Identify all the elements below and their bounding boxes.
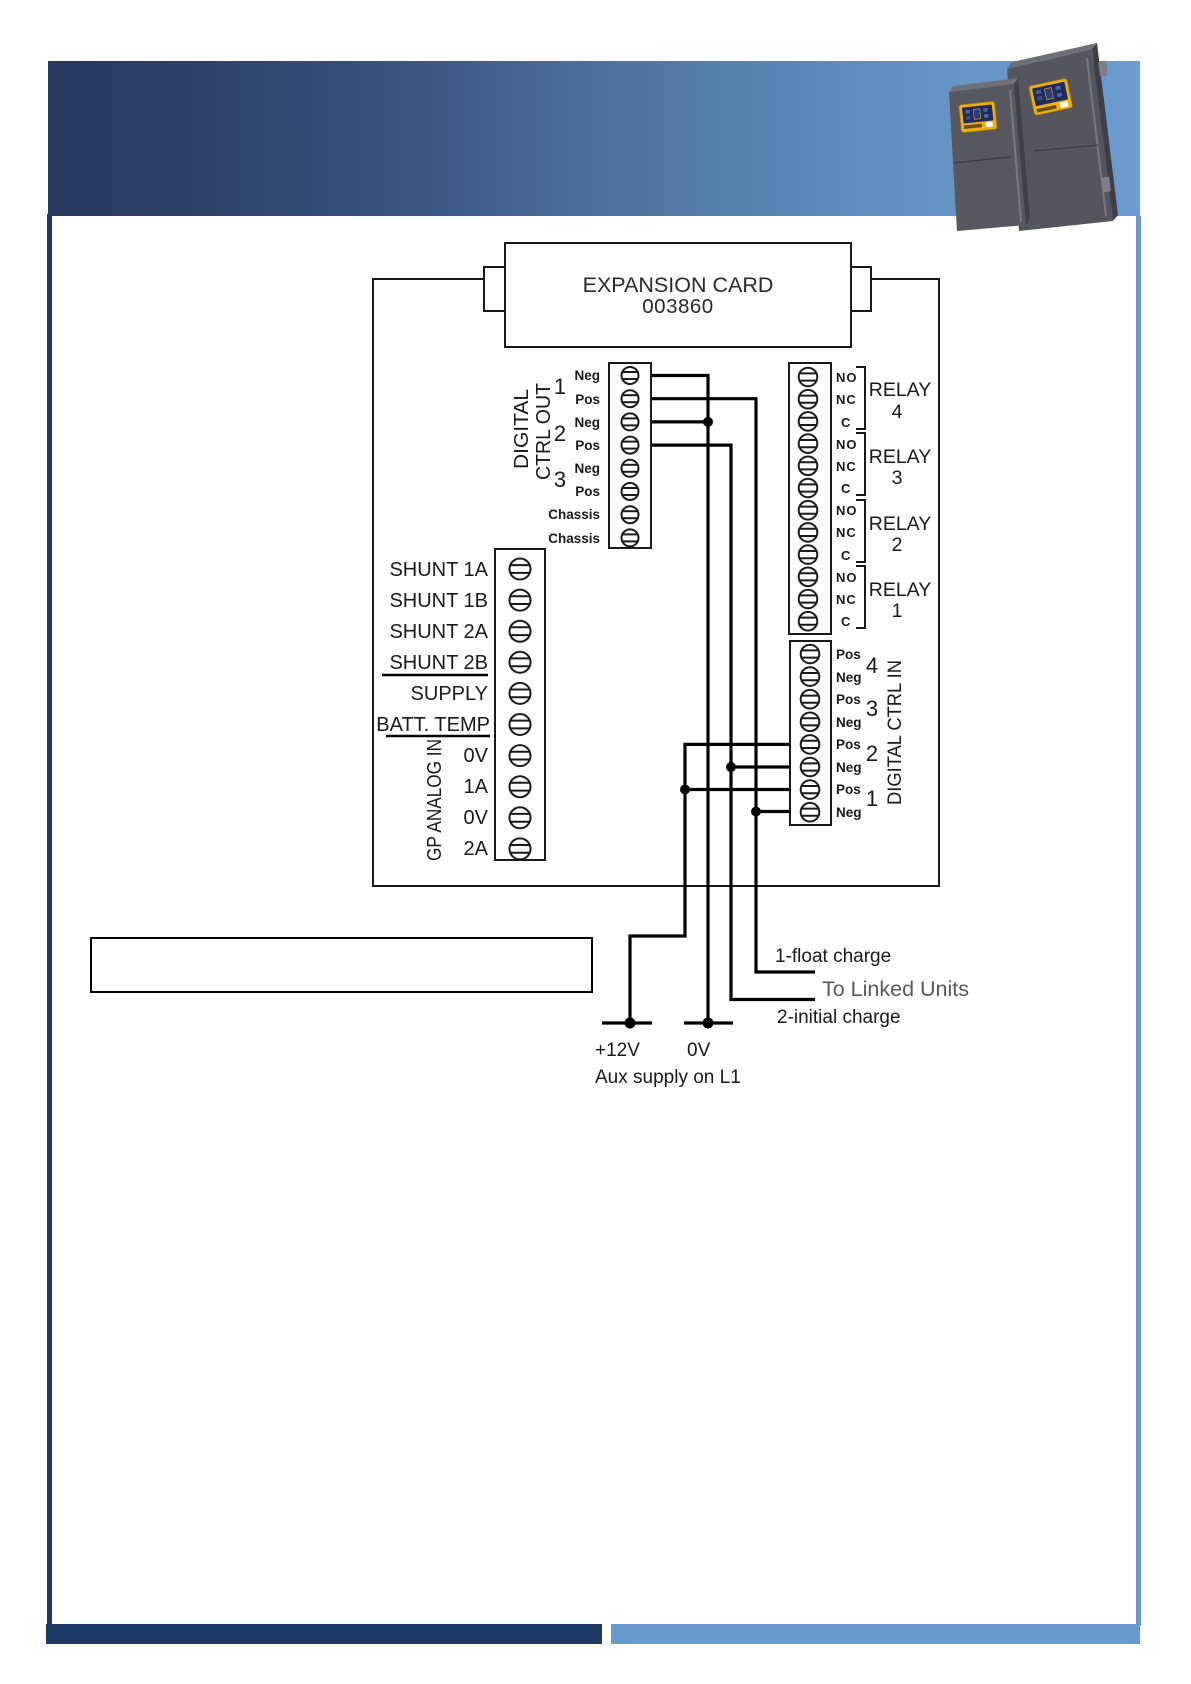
svg-text:2: 2	[866, 741, 878, 766]
big inverter body	[1007, 43, 1118, 231]
wire: DIGITAL CTRL OUT 2 Neg joining 0V rail	[651, 420, 708, 423]
junction: Neg 1 / float-charge wire	[751, 807, 761, 817]
svg-text:NC: NC	[836, 525, 857, 540]
svg-text:2-initial charge: 2-initial charge	[777, 1007, 901, 1028]
svg-text:NO: NO	[836, 370, 858, 385]
svg-text:4: 4	[892, 401, 903, 423]
wire: DIGITAL CTRL OUT 2 Pos down to initial-charge stub	[651, 445, 815, 999]
svg-text:RELAY: RELAY	[869, 513, 932, 535]
node: 0V supply terminal	[684, 1021, 733, 1024]
svg-text:Neg: Neg	[836, 670, 862, 685]
junction: Neg 2 / initial-charge wire	[726, 762, 736, 772]
svg-text:3: 3	[892, 467, 903, 489]
wire: branch to DIGITAL CTRL IN Pos 1	[685, 788, 790, 791]
svg-text:Neg: Neg	[836, 760, 862, 775]
svg-text:NC: NC	[836, 459, 857, 474]
svg-text:Pos: Pos	[836, 737, 861, 752]
bottom dark bar	[46, 1624, 602, 1644]
expansion card outer board outline	[373, 279, 939, 886]
wire: +12V riser to DIGITAL CTRL IN Pos 2	[630, 744, 790, 1023]
wiring diagram	[0, 0, 1191, 1120]
bracket: relay 2 group	[856, 500, 865, 562]
inverter product photo (two units)	[0, 0, 1191, 260]
svg-text:Pos: Pos	[575, 392, 600, 407]
svg-text:Chassis: Chassis	[548, 531, 600, 546]
svg-text:0V: 0V	[687, 1040, 711, 1061]
separator under SHUNT 2B	[382, 674, 488, 677]
bracket: relay 3 group	[856, 433, 865, 495]
junction: 2 Neg / 0V rail	[703, 417, 713, 427]
pin labels: DIGITAL CTRL OUT	[548, 368, 600, 546]
svg-text:C: C	[841, 481, 851, 496]
svg-text:Neg: Neg	[574, 368, 600, 383]
svg-text:2: 2	[554, 421, 566, 446]
label: RELAY 4	[869, 379, 932, 622]
expansion card left tab	[484, 267, 506, 311]
wire: branch DIGITAL CTRL IN Neg 2 to initial-charge wire	[731, 765, 790, 768]
bracket: relay 1 group	[856, 566, 865, 628]
svg-text:Pos: Pos	[575, 438, 600, 453]
svg-text:CTRL OUT: CTRL OUT	[533, 383, 555, 480]
svg-text:3: 3	[866, 696, 878, 721]
svg-text:RELAY: RELAY	[869, 379, 932, 401]
svg-text:Pos: Pos	[836, 782, 861, 797]
svg-text:0V: 0V	[464, 745, 489, 767]
svg-text:C: C	[841, 415, 851, 430]
svg-text:SHUNT 1B: SHUNT 1B	[389, 590, 488, 612]
svg-text:NO: NO	[836, 503, 858, 518]
junction: +12V riser / Pos 1 branch	[680, 785, 690, 795]
svg-text:SUPPLY: SUPPLY	[411, 683, 488, 705]
svg-text:Neg: Neg	[574, 415, 600, 430]
separator under BATT. TEMP	[386, 735, 490, 738]
channel numbers 4 3 2 1	[866, 653, 878, 811]
svg-text:1: 1	[554, 374, 566, 399]
svg-text:Pos: Pos	[575, 484, 600, 499]
svg-text:NO: NO	[836, 570, 858, 585]
svg-text:NC: NC	[836, 592, 857, 607]
small inverter body	[949, 78, 1030, 231]
wire: DIGITAL CTRL OUT 1 Neg to 0V rail	[651, 376, 708, 1024]
expansion card title box U1	[505, 243, 851, 347]
bracket: relay 4 group	[856, 367, 865, 429]
wire: branch DIGITAL CTRL IN Neg 1 to float-charge wire	[756, 810, 790, 813]
svg-text:2: 2	[892, 534, 903, 556]
svg-text:003860: 003860	[642, 295, 713, 318]
svg-text:To Linked Units: To Linked Units	[822, 977, 969, 1001]
svg-text:3: 3	[554, 467, 566, 492]
svg-text:BATT. TEMP: BATT. TEMP	[376, 714, 490, 736]
big inverter latch bottom	[1101, 177, 1111, 193]
svg-text:EXPANSION CARD: EXPANSION CARD	[583, 273, 774, 297]
svg-text:DIGITAL CTRL IN: DIGITAL CTRL IN	[885, 660, 906, 805]
pin labels: relay contacts NO NC C	[836, 370, 858, 629]
terminal strip: DIGITAL CTRL OUT	[609, 363, 651, 548]
svg-text:+12V: +12V	[595, 1040, 640, 1061]
bottom light bar	[611, 1624, 1140, 1644]
svg-text:DIGITAL: DIGITAL	[511, 389, 533, 469]
svg-text:1-float charge: 1-float charge	[775, 946, 891, 967]
svg-text:RELAY: RELAY	[869, 446, 932, 468]
pin labels: shunt and analog inputs	[376, 559, 490, 860]
node: +12V supply terminal	[602, 1021, 652, 1024]
svg-text:1: 1	[866, 786, 878, 811]
svg-text:2A: 2A	[464, 838, 489, 860]
svg-text:Pos: Pos	[836, 692, 861, 707]
svg-text:1: 1	[892, 600, 903, 622]
note box (empty callout)	[91, 938, 592, 992]
header gradient band	[48, 61, 1140, 216]
svg-text:Chassis: Chassis	[548, 507, 600, 522]
svg-text:Pos: Pos	[836, 647, 861, 662]
pin group numbers 1 2 3	[554, 374, 566, 492]
svg-text:Aux supply on L1: Aux supply on L1	[595, 1067, 741, 1088]
svg-text:SHUNT 1A: SHUNT 1A	[389, 559, 488, 581]
svg-text:Neg: Neg	[836, 715, 862, 730]
svg-text:C: C	[841, 548, 851, 563]
terminal strip: RELAY outputs	[789, 363, 831, 634]
svg-text:NO: NO	[836, 437, 858, 452]
expansion card right tab	[849, 267, 871, 311]
svg-text:0V: 0V	[464, 807, 489, 829]
svg-text:GP ANALOG IN: GP ANALOG IN	[424, 739, 446, 861]
terminal strip: SHUNT / analog inputs	[495, 549, 545, 860]
big inverter latch top	[1098, 61, 1108, 77]
right page stripe	[1136, 216, 1141, 1626]
svg-text:C: C	[841, 614, 851, 629]
left page stripe	[47, 214, 52, 1626]
svg-text:SHUNT 2B: SHUNT 2B	[389, 652, 488, 674]
big inverter yellow panel	[1029, 78, 1073, 115]
wire: DIGITAL CTRL OUT 1 Pos down to float-charge stub	[651, 399, 815, 972]
svg-text:RELAY: RELAY	[869, 579, 932, 601]
svg-text:SHUNT 2A: SHUNT 2A	[389, 621, 488, 643]
svg-text:NC: NC	[836, 392, 857, 407]
small inverter yellow panel	[959, 101, 998, 133]
pin labels: DIGITAL CTRL IN Pos/Neg	[836, 647, 862, 820]
terminal strip: DIGITAL CTRL IN	[790, 641, 831, 825]
svg-text:Neg: Neg	[574, 461, 600, 476]
svg-text:1A: 1A	[464, 776, 489, 798]
svg-text:4: 4	[866, 653, 878, 678]
svg-text:Neg: Neg	[836, 805, 862, 820]
